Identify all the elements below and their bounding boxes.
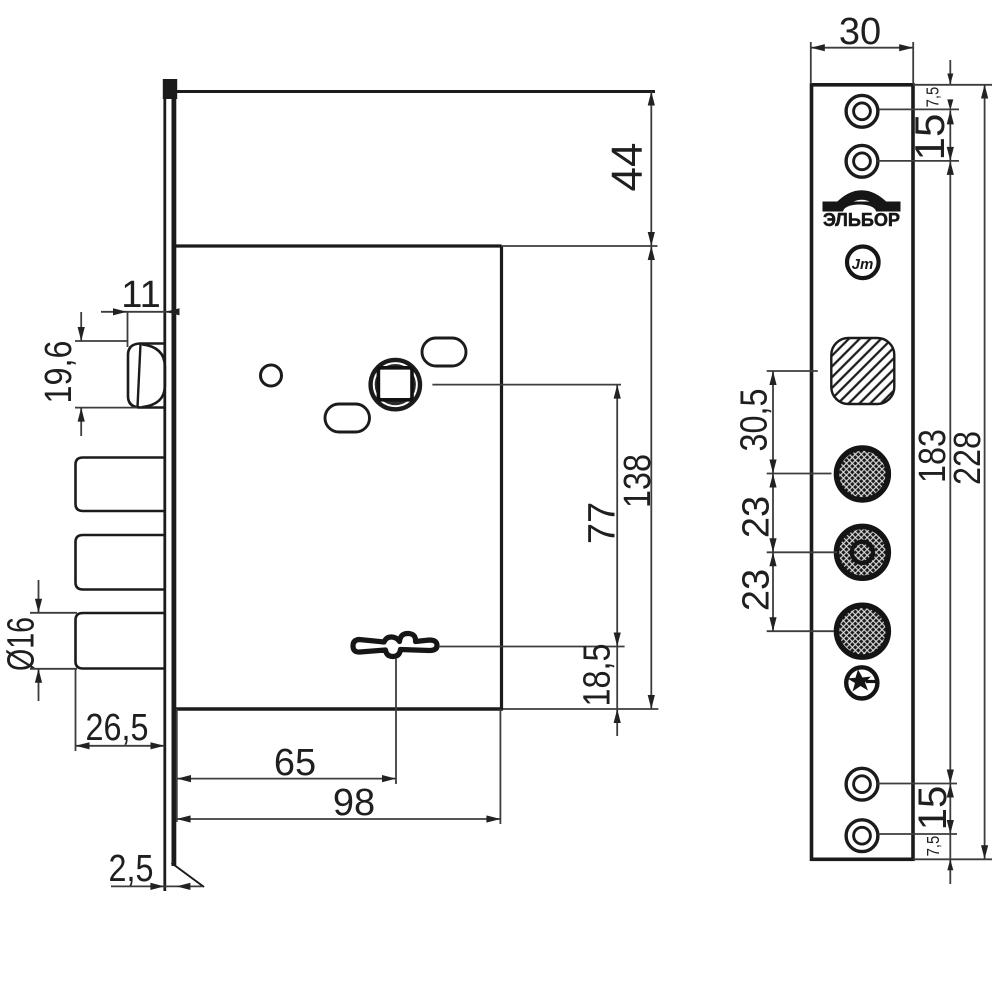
screw hole top 1 <box>846 95 878 127</box>
dimension 30 lines <box>811 42 913 84</box>
ELBOR logo <box>823 195 901 230</box>
lock body right edge <box>500 246 503 709</box>
spindle centre leader <box>432 384 621 386</box>
faceplate top extension line <box>176 90 655 93</box>
turn knob symbol <box>846 667 877 698</box>
cylinder hole (hatched) <box>831 338 894 404</box>
faceplate top-right extension <box>913 84 992 86</box>
deadbolt pin 3 <box>76 613 166 669</box>
key centre vertical extension <box>395 658 397 784</box>
dimension 65 text <box>274 742 316 784</box>
slot upper <box>422 338 466 366</box>
svg-text:Jт: Jт <box>852 256 874 273</box>
svg-text:2,5: 2,5 <box>109 848 154 890</box>
dimension 15 bottom text <box>911 786 955 831</box>
screw hole 2 leader <box>877 160 959 162</box>
dimension 18,5 lines <box>614 647 621 737</box>
screw hole top 2 <box>846 145 878 177</box>
latch bolt <box>128 344 165 408</box>
cylinder centre leader <box>767 370 818 372</box>
bolt 2 leader <box>767 551 837 553</box>
svg-text:228: 228 <box>947 431 989 485</box>
svg-text:7,5: 7,5 <box>923 836 943 857</box>
dimension 7,5 bottom text <box>923 836 943 857</box>
svg-text:ЭЛЬБОР: ЭЛЬБОР <box>823 210 900 230</box>
dimension 98 lines <box>177 815 501 822</box>
dimension 30,5 text <box>734 389 776 452</box>
certification mark circle <box>847 246 879 278</box>
lock body top edge <box>176 244 502 247</box>
body bottom extension line <box>503 708 658 710</box>
svg-text:18,5: 18,5 <box>577 644 619 707</box>
svg-text:Ø16: Ø16 <box>1 617 43 671</box>
faceplate edge - case front thick line <box>171 84 176 866</box>
dimension 18,5 text <box>577 644 619 707</box>
faceplate bottom-right extension <box>913 858 992 860</box>
dimension 228 lines <box>981 85 988 860</box>
svg-text:23: 23 <box>736 569 778 611</box>
dimension 26,5 text <box>86 707 149 749</box>
dimension 65 lines <box>177 775 396 782</box>
dimension diameter 16 text <box>1 617 43 671</box>
dimension 30 text <box>839 11 881 53</box>
faceplate bottom tip leader diagonal <box>172 863 205 887</box>
dimension 11 text <box>121 274 160 316</box>
faceplate edge - front surface thin line <box>163 82 166 891</box>
screw hole 1 leader <box>879 108 959 110</box>
body top extension line <box>502 245 658 247</box>
key centre leader <box>439 646 625 648</box>
deadbolt pin 1 <box>76 458 166 512</box>
svg-text:30,5: 30,5 <box>734 389 776 452</box>
svg-text:138: 138 <box>617 454 659 508</box>
dimension 11 lines <box>101 308 180 347</box>
svg-text:26,5: 26,5 <box>86 707 149 749</box>
dimension 7,5 bottom lines <box>947 834 953 884</box>
bolt 3 leader <box>767 630 834 632</box>
dimension diameter 16 lines <box>30 580 77 701</box>
pilot hole <box>261 365 282 386</box>
dimension 77 text <box>582 502 624 544</box>
lock body bottom edge <box>173 707 503 710</box>
dimension 138 lines <box>648 246 655 709</box>
dimension 44 text <box>603 143 652 192</box>
svg-text:15: 15 <box>906 114 953 161</box>
dimension 15 top lines <box>947 110 954 160</box>
svg-text:30: 30 <box>839 11 881 53</box>
slot lower <box>325 404 370 432</box>
dimension 23 lower text <box>736 569 778 611</box>
svg-text:11: 11 <box>121 274 160 316</box>
screw hole bottom 1 <box>846 768 878 800</box>
body left lower extension <box>176 709 178 822</box>
svg-text:7,5: 7,5 <box>923 87 943 108</box>
dimension 15 bottom lines <box>947 784 954 835</box>
dimension 23 upper text <box>736 496 778 538</box>
dimension 30,5 lines <box>769 371 776 474</box>
faceplate outline <box>812 85 914 860</box>
svg-text:23: 23 <box>736 496 778 538</box>
dimension 44 lines <box>648 92 655 247</box>
screw hole bottom 2 <box>846 820 878 852</box>
svg-text:98: 98 <box>333 782 375 824</box>
dimension 7,5 top text <box>923 87 943 108</box>
dimension 183 lines <box>947 161 954 784</box>
bolt 1 leader <box>767 473 832 475</box>
body right lower extension <box>499 709 501 824</box>
dimension 23 upper lines <box>769 474 776 553</box>
key silhouette <box>353 633 437 656</box>
faceplate top end cap <box>163 79 177 99</box>
bolt hole 2 <box>837 526 889 578</box>
dimension 138 text <box>617 454 659 508</box>
dimension 23 lower lines <box>769 552 776 631</box>
dimension 15 top text <box>906 114 953 161</box>
dimension 26,5 lines <box>76 669 165 751</box>
bolt hole 1 <box>837 448 889 500</box>
dimension 7,5 top lines <box>947 60 953 110</box>
dimension 98 text <box>333 782 375 824</box>
dimension 2,5 text <box>109 848 154 890</box>
dimension 183 text <box>912 429 954 483</box>
screw hole 4 leader <box>878 833 957 835</box>
dimension 228 text <box>947 431 989 485</box>
dimension 77 lines <box>614 385 621 647</box>
dimension 2,5 lines <box>111 883 202 890</box>
bolt hole 3 <box>837 605 889 657</box>
spindle hub with square follower <box>371 360 420 409</box>
dimension 19,6 text <box>38 341 80 404</box>
deadbolt pin 2 <box>76 535 166 590</box>
dimension 19,6 lines <box>75 312 137 436</box>
screw hole 3 leader <box>878 783 958 785</box>
svg-text:44: 44 <box>603 143 652 192</box>
svg-text:19,6: 19,6 <box>38 341 80 404</box>
